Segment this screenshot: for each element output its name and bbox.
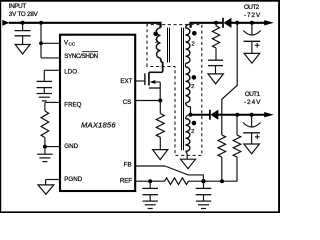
svg-text:OUT2: OUT2 — [244, 4, 260, 11]
svg-text:CC: CC — [69, 41, 76, 46]
svg-text:2: 2 — [191, 129, 194, 135]
svg-text:INPUT: INPUT — [9, 3, 27, 10]
svg-text:-24V: -24V — [244, 99, 261, 106]
svg-text:CS: CS — [123, 99, 132, 106]
svg-text:FB: FB — [124, 161, 132, 168]
svg-text:-72V: -72V — [244, 12, 261, 19]
svg-text:2: 2 — [191, 42, 194, 48]
svg-text:2: 2 — [191, 84, 194, 90]
svg-text:OUT1: OUT1 — [245, 91, 261, 98]
svg-text:MAX1856: MAX1856 — [81, 120, 116, 129]
svg-text:REF: REF — [120, 178, 133, 185]
svg-text:PGND: PGND — [64, 176, 82, 183]
svg-text:GND: GND — [64, 143, 78, 150]
svg-text:FREQ: FREQ — [64, 102, 81, 109]
svg-text:1: 1 — [155, 38, 158, 44]
svg-text:LDO: LDO — [64, 69, 77, 76]
svg-text:SYNC/SHDN: SYNC/SHDN — [64, 53, 98, 60]
svg-text:3V TO 28V: 3V TO 28V — [9, 11, 39, 18]
svg-text:EXT: EXT — [120, 78, 132, 85]
